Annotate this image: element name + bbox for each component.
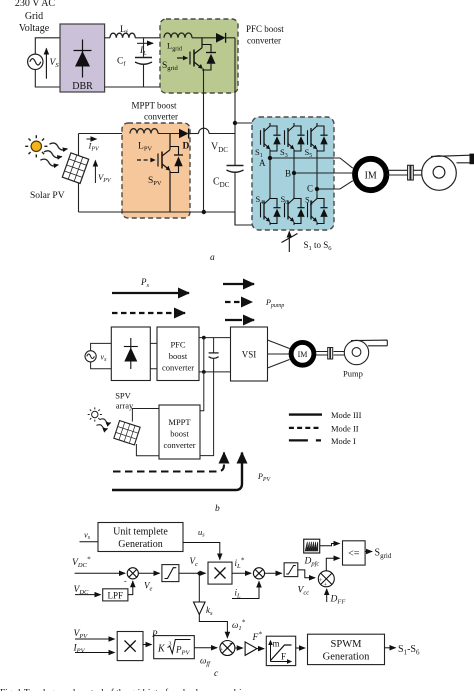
svg-text:S1 to S6: S1 to S6 (304, 240, 333, 252)
svg-text:Voltage: Voltage (19, 23, 50, 34)
wire sawtooth to comparator (320, 544, 340, 546)
node C (315, 187, 319, 191)
ramp rate limiter block (266, 636, 295, 665)
svg-text:IPV: IPV (88, 141, 101, 153)
svg-text:Dpfc: Dpfc (304, 557, 320, 568)
pump outlet cap (470, 154, 474, 165)
svg-text:m: m (273, 639, 280, 649)
svg-text:iL: iL (235, 588, 242, 600)
svg-text:vs: vs (101, 353, 108, 364)
svg-text:Solar PV: Solar PV (30, 191, 65, 201)
legend line mode II (289, 427, 321, 429)
wire SPWM out (385, 647, 396, 649)
wire MPPT out top (200, 338, 204, 411)
node bottom (202, 370, 206, 374)
gain ks triangle (194, 602, 206, 615)
svg-text:iL*: iL* (235, 557, 245, 571)
svg-text:array: array (116, 401, 134, 411)
antiparallel diode of SPV (170, 147, 183, 173)
svg-text:Cf: Cf (117, 57, 126, 68)
svg-text:Mode III: Mode III (331, 410, 362, 420)
label: 230 V AC Grid Voltage (15, 0, 56, 34)
wire LPV to diode D (158, 133, 179, 135)
wire DC link top (199, 337, 231, 339)
pump small (344, 340, 387, 365)
wire comparator to Sgrid (365, 551, 372, 553)
svg-text:a: a (210, 253, 215, 263)
wire hop over PFC return (199, 128, 210, 133)
IGBT SPV (137, 134, 170, 213)
wire VDC to LPF (75, 594, 101, 596)
wire IPV in (75, 652, 115, 654)
svg-text:ωff: ωff (200, 656, 211, 668)
sawtooth carrier block (304, 539, 320, 553)
svg-text:IM: IM (365, 171, 377, 182)
svg-text:VPV: VPV (98, 172, 112, 184)
svg-text:Vcc: Vcc (298, 586, 310, 597)
svg-text:Ve: Ve (144, 581, 153, 593)
antiparallel diode of Sgrid (202, 45, 216, 71)
SPV panel small (114, 421, 140, 445)
wire iL to summer2 (232, 581, 259, 598)
svg-text:SPWM: SPWM (331, 639, 363, 650)
sun (25, 135, 47, 157)
ac source Vs (28, 54, 43, 69)
svg-text:C: C (307, 184, 313, 194)
wire ramp to SPWM (296, 647, 305, 649)
SPWM generation box (308, 634, 385, 664)
solar PV panel (62, 153, 88, 184)
sun small (88, 407, 102, 421)
arrow Vs (45, 49, 47, 79)
slash on gate arrow (282, 234, 298, 243)
summer 1 (127, 568, 138, 579)
svg-text:VS: VS (50, 58, 60, 69)
svg-text:-: - (124, 577, 127, 586)
node top (202, 336, 206, 340)
svg-text:F: F (281, 652, 286, 662)
wire gain to ramp block (257, 648, 264, 650)
svg-text:A: A (259, 158, 266, 168)
coupling small (328, 348, 333, 360)
wire PFC return down (203, 69, 205, 213)
wire us to multiplier (183, 543, 220, 560)
svg-text:VDC: VDC (211, 142, 228, 155)
svg-text:converter: converter (162, 363, 194, 373)
svg-text:+: + (319, 577, 323, 584)
IGBT S3 (285, 123, 305, 151)
wire VSI legs (270, 151, 317, 225)
coupling (408, 165, 414, 180)
svg-text:converter: converter (247, 36, 281, 46)
svg-text:Mode I: Mode I (331, 436, 356, 446)
wire ks to summer4 (199, 615, 227, 638)
svg-text:Generation: Generation (118, 539, 162, 550)
VSI box (231, 327, 268, 381)
svg-text:DFF: DFF (330, 595, 347, 606)
svg-text:VPV: VPV (74, 629, 89, 640)
LPF block (103, 589, 128, 601)
wire SPV loop bottom (136, 444, 159, 456)
unit template generation box (98, 523, 183, 552)
motor IM (355, 159, 386, 190)
svg-text:D: D (183, 142, 190, 152)
svg-text:us: us (198, 527, 205, 539)
wire phase C (317, 181, 353, 189)
node Vc (198, 572, 202, 576)
node DC bus top (233, 121, 237, 125)
svg-text:Grid: Grid (25, 11, 43, 22)
arrow dashed right Ppump (225, 301, 252, 303)
arrow Ps solid mode III (112, 292, 189, 294)
motor IM small (291, 342, 314, 365)
solid PV power arrow PPV (112, 453, 242, 491)
wire Lf to PFC box (135, 37, 164, 39)
IGBT S1 (261, 123, 281, 151)
svg-text:230 V AC: 230 V AC (15, 0, 56, 9)
wire DC negative rail (79, 211, 236, 213)
wire PFC output down to DC bus (234, 38, 236, 166)
wire multiplier to summer2 (232, 572, 251, 574)
PFC boost converter box (157, 327, 199, 381)
svg-text:converter: converter (163, 440, 195, 450)
svg-text:Ppump: Ppump (265, 298, 284, 309)
svg-text:Lf: Lf (120, 25, 129, 36)
IGBT S6 (285, 196, 305, 224)
IGBT S5 (308, 123, 328, 151)
K cube root block (154, 636, 195, 659)
gate arrow S1 to S6 (288, 232, 290, 253)
svg-text:MPPT boost: MPPT boost (131, 101, 177, 111)
node A (268, 156, 272, 160)
DBR rectifier block (60, 24, 105, 92)
wire phase A (270, 158, 353, 168)
IGBT S4 (261, 196, 281, 224)
shaft small (316, 352, 346, 356)
svg-text:VDC*: VDC* (72, 556, 91, 570)
inductor Lgrid (164, 33, 192, 38)
inductor LPV (130, 129, 158, 134)
wire summer3 up to comparator (326, 558, 339, 571)
wire rail jog to VSI bottom bus (235, 212, 323, 225)
wire diode to hop (189, 133, 199, 135)
svg-text:boost: boost (170, 429, 189, 439)
wire phase B (294, 172, 353, 174)
svg-text:PFC boost: PFC boost (246, 24, 284, 34)
wire SPV loop top (132, 409, 159, 422)
wire LPF to summer1 (128, 581, 133, 594)
legend line mode III (289, 413, 322, 415)
diode bridge box (111, 327, 150, 381)
svg-text:F*: F* (252, 631, 263, 644)
svg-text:3: 3 (169, 642, 172, 648)
wire DC link bottom (199, 371, 231, 373)
svg-text:S1-S6: S1-S6 (398, 644, 420, 657)
svg-text:PFC: PFC (170, 340, 185, 350)
svg-text:Fig. 1 Topology and control o: Fig. 1 Topology and control of the grid-… (0, 687, 250, 691)
summer 2 (253, 568, 264, 579)
svg-text:vs: vs (84, 530, 91, 542)
svg-text:b: b (215, 504, 220, 514)
shaft motor to coupling (387, 170, 408, 175)
capacitor DC link (209, 338, 219, 372)
wire summer4 to gain triangle (235, 647, 243, 649)
node B (292, 171, 296, 175)
multiplier PV box (117, 632, 143, 661)
summer 4 (220, 641, 235, 656)
legend line mode I (289, 439, 321, 441)
svg-text:VSI: VSI (242, 350, 257, 360)
arrow DFF (326, 589, 328, 602)
svg-text:Unit templete: Unit templete (113, 527, 168, 538)
svg-text:ks: ks (206, 605, 213, 617)
svg-text:B: B (285, 169, 291, 179)
svg-text:Sgrid: Sgrid (375, 548, 392, 561)
gain triangle F (245, 642, 257, 656)
wire DBR to Lf (105, 37, 110, 39)
shaft coupling to pump (413, 170, 422, 175)
svg-text:Ps: Ps (140, 277, 150, 289)
svg-text:PPV: PPV (257, 472, 272, 483)
pump body (422, 155, 471, 190)
limiter 2 (284, 563, 298, 577)
svg-text:<=: <= (348, 549, 360, 560)
wire vs in (80, 541, 99, 543)
boost diode of PFC (216, 33, 235, 43)
node PFC return on rail (202, 210, 206, 214)
limiter 1 PI block (162, 565, 179, 582)
capacitor CDC (227, 166, 244, 226)
wire VPV in (75, 638, 115, 640)
wires VSI to IM (268, 340, 290, 368)
arrow IL (137, 42, 153, 44)
label PFC boost converter (246, 24, 284, 46)
svg-text:+: + (324, 582, 328, 589)
svg-text:+: + (220, 647, 224, 654)
wire hop to DC bus (209, 133, 235, 135)
svg-text:K: K (157, 644, 166, 655)
arrow solid right (223, 283, 254, 285)
MPPT boost converter box b (159, 405, 200, 459)
IGBT S2 (308, 196, 328, 224)
svg-text:SPV: SPV (115, 391, 131, 401)
wire VDC* to summer (75, 572, 125, 574)
wire PV top rail to MPPT (79, 133, 131, 135)
wire multiplier to K block (143, 644, 152, 646)
arrow IPV (87, 138, 97, 140)
comparator block (343, 541, 366, 565)
svg-text:Mode II: Mode II (331, 423, 359, 433)
multiplier box (208, 562, 232, 584)
wire summer1 to limiter1 (138, 572, 159, 574)
wire Lgrid to diode (192, 37, 216, 39)
svg-text:DBR: DBR (72, 81, 93, 92)
svg-text:Generation: Generation (323, 652, 370, 663)
sun rays to panel (40, 141, 68, 169)
ac source vs (85, 351, 96, 362)
dashed PV power arrow (113, 453, 224, 472)
wire MPPT out bottom (200, 372, 214, 456)
label MPPT boost converter (131, 101, 178, 122)
svg-text:CDC: CDC (213, 177, 230, 190)
svg-text:MPPT: MPPT (168, 417, 191, 427)
svg-text:Vc: Vc (190, 556, 199, 568)
svg-text:boost: boost (169, 351, 188, 361)
arrow dashed mode II left (112, 312, 185, 314)
wire limiter1 to multiplier (179, 572, 206, 574)
svg-text:LPF: LPF (108, 591, 124, 601)
inductor Lf (110, 33, 135, 38)
svg-text:Pump: Pump (343, 369, 363, 379)
diode D (179, 129, 189, 139)
PFC boost converter box (160, 19, 238, 93)
wire vs loop (91, 343, 112, 368)
labels S1 S3 S5 (255, 147, 313, 207)
wire summer2 to limiter2 (265, 572, 282, 574)
sun rays small (96, 418, 111, 430)
svg-text:c: c (214, 669, 219, 679)
IGBT Sgrid (177, 38, 203, 69)
wire DC bus to VSI (235, 122, 317, 124)
VSI box (252, 117, 334, 230)
wire bottom rail DBR to PFC return (105, 86, 204, 88)
wire K block to summer4 (194, 647, 217, 649)
arrow dashdot right mode I (225, 319, 254, 321)
svg-text:ω1*: ω1* (232, 619, 246, 633)
branch Vc down to ks (198, 573, 200, 601)
MPPT boost converter box (122, 123, 190, 218)
wire limiter2 to summer3 (298, 570, 315, 578)
wire PV positive rail (78, 134, 80, 213)
capacitor Cf (135, 38, 152, 87)
wires bridge to PFC (150, 343, 157, 368)
svg-text:IM: IM (298, 350, 308, 359)
arrow VPV (94, 161, 96, 184)
svg-text:converter: converter (144, 112, 178, 122)
summer 3 (318, 571, 334, 587)
wire grid source loop (35, 38, 60, 87)
